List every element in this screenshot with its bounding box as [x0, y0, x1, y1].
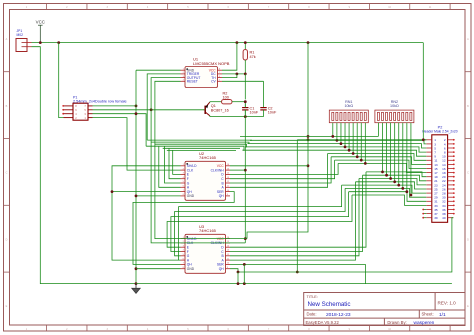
svg-text:QH: QH	[219, 267, 225, 271]
svg-text:39: 39	[434, 216, 438, 220]
svg-text:CV: CV	[211, 80, 216, 84]
svg-text:VCC: VCC	[36, 20, 45, 25]
svg-text:EasyEDA V5.9.22: EasyEDA V5.9.22	[306, 320, 340, 325]
svg-text:LMC555CMX NOPB: LMC555CMX NOPB	[193, 61, 230, 66]
svg-text:REV: 1.0: REV: 1.0	[438, 301, 457, 306]
svg-text:GND: GND	[187, 194, 195, 198]
svg-text:R1: R1	[250, 51, 255, 55]
svg-text:C: C	[6, 172, 8, 175]
svg-text:Q1: Q1	[211, 104, 216, 108]
svg-text:RN2: RN2	[391, 100, 398, 104]
svg-text:GND: GND	[187, 267, 195, 271]
svg-text:100: 100	[223, 96, 229, 100]
svg-text:M02: M02	[17, 33, 24, 37]
svg-text:2.54mm_2x4Double row female: 2.54mm_2x4Double row female	[73, 100, 127, 104]
svg-text:D: D	[6, 238, 8, 241]
svg-text:Date:: Date:	[307, 312, 317, 317]
svg-text:RN1: RN1	[345, 100, 352, 104]
svg-text:1/1: 1/1	[439, 312, 446, 318]
svg-text:10nF: 10nF	[250, 111, 259, 115]
svg-text:10kΩ: 10kΩ	[390, 104, 399, 108]
svg-text:RESET: RESET	[187, 80, 198, 84]
svg-text:BC807_16: BC807_16	[211, 108, 229, 112]
svg-text:74HC165: 74HC165	[199, 228, 217, 233]
svg-text:10nF: 10nF	[268, 111, 277, 115]
svg-text:JP1: JP1	[17, 29, 23, 33]
svg-text:10kΩ: 10kΩ	[344, 104, 353, 108]
svg-text:TITLE:: TITLE:	[307, 295, 318, 299]
svg-text:Sheet:: Sheet:	[422, 312, 434, 317]
svg-text:QH: QH	[219, 194, 225, 198]
svg-text:2018-12-23: 2018-12-23	[326, 312, 351, 318]
svg-text:wasperen: wasperen	[414, 320, 435, 326]
svg-text:40: 40	[442, 216, 446, 220]
svg-text:Drawn By:: Drawn By:	[387, 320, 406, 325]
svg-text:D: D	[467, 238, 469, 241]
svg-text:C: C	[467, 172, 469, 175]
svg-text:New Schematic: New Schematic	[308, 301, 351, 308]
svg-text:Header Male 2.54_2x20: Header Male 2.54_2x20	[422, 130, 457, 134]
svg-text:74HC165: 74HC165	[199, 155, 217, 160]
svg-text:47k: 47k	[250, 55, 256, 59]
